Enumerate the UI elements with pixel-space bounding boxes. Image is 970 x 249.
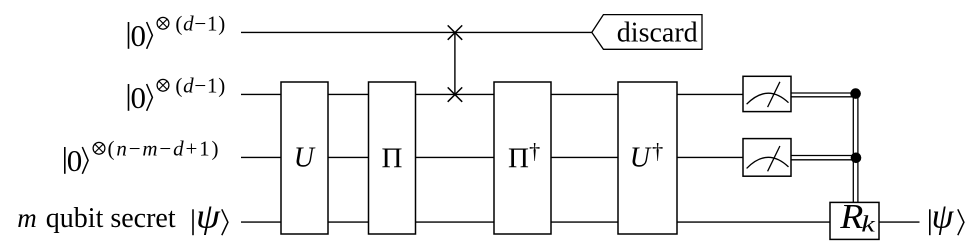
swap cross on q2: [448, 87, 463, 101]
gate Pi-dagger box: [494, 82, 551, 234]
svg-text:0: 0: [131, 80, 147, 115]
wire q3: [241, 156, 743, 158]
svg-text:U: U: [630, 143, 652, 174]
svg-text:0: 0: [67, 143, 83, 178]
meter M1 needle: [768, 82, 780, 107]
svg-text:R: R: [839, 197, 863, 235]
svg-text:U: U: [294, 143, 316, 174]
svg-text:qubit secret: qubit secret: [46, 203, 176, 234]
classical double wire from M2: [791, 155, 856, 157]
classical double wire from M1: [791, 92, 856, 94]
svg-text:Π: Π: [508, 143, 529, 175]
gate Rk box: [830, 202, 879, 239]
wire q1 top (discarded register): [241, 31, 592, 33]
meter M2 box: [743, 139, 791, 177]
svg-text:ψ: ψ: [196, 196, 221, 235]
meter M2 needle: [768, 146, 780, 171]
swap cross on q1: [448, 25, 463, 39]
output ket |psi>: [930, 197, 964, 236]
ket label q3: |0> tensor (n-m-d+1): [65, 137, 219, 179]
svg-text:m: m: [17, 203, 37, 233]
svg-text:(n−m−d+1): (n−m−d+1): [108, 137, 219, 161]
wire q4 output segment: [879, 221, 920, 223]
control dot on classical wire at q3: [851, 153, 862, 164]
gate Pi box: [369, 82, 416, 234]
svg-text:(d−1): (d−1): [175, 11, 225, 35]
label q4: m qubit secret |psi>: [17, 196, 228, 235]
svg-text:†: †: [652, 139, 663, 164]
control dot on classical wire at q2: [850, 88, 861, 99]
svg-text:discard: discard: [617, 18, 698, 49]
discard tag: [592, 15, 702, 50]
svg-text:ψ: ψ: [932, 197, 955, 236]
svg-text:(d−1): (d−1): [175, 74, 225, 98]
svg-text:†: †: [529, 139, 540, 164]
meter M1 arc: [747, 93, 789, 104]
svg-text:k: k: [861, 211, 876, 237]
meter M2 arc: [747, 157, 789, 168]
classical vertical double wire: [852, 93, 854, 203]
gate U-dagger box: [618, 82, 677, 234]
swap gate vertical wire: [454, 32, 456, 94]
svg-text:0: 0: [131, 18, 147, 53]
wire q2: [241, 93, 743, 95]
meter M1 box: [743, 76, 791, 111]
wire q4 (secret): [241, 221, 830, 223]
svg-text:Π: Π: [382, 143, 403, 175]
ket label q2: |0> tensor (d-1): [129, 74, 226, 116]
gate U box: [281, 82, 328, 234]
ket label q1: |0> tensor (d-1): [129, 11, 226, 53]
